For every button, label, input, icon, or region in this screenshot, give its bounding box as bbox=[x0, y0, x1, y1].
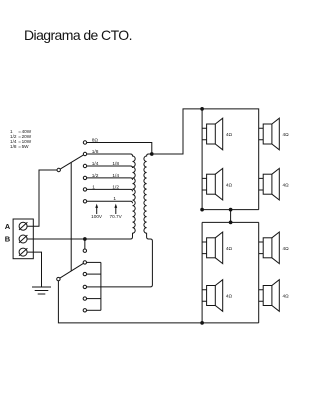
svg-text:4Ω: 4Ω bbox=[283, 294, 290, 299]
svg-text:1: 1 bbox=[92, 184, 95, 190]
wire tap 5 to primary winding bbox=[87, 189, 133, 191]
selector S2 pivot bbox=[57, 277, 60, 280]
svg-text:1/2: 1/2 bbox=[92, 173, 99, 179]
label LS3 4-ohm bbox=[226, 182, 233, 187]
wire terminal B to transformer primary bottom bbox=[27, 238, 130, 240]
node group2 bottom left bbox=[200, 321, 204, 325]
svg-text:8Ω: 8Ω bbox=[92, 137, 99, 143]
label 70.7V bbox=[109, 214, 122, 219]
node B junction bbox=[83, 237, 87, 241]
ground bbox=[32, 287, 51, 294]
node group2 top link bbox=[229, 221, 233, 225]
label terminal A bbox=[5, 222, 11, 231]
wire terminal A to selector S1 pivot bbox=[27, 170, 57, 226]
svg-text:4Ω: 4Ω bbox=[283, 132, 290, 137]
selector S1 contact 5 bbox=[83, 188, 86, 191]
wire bus to secondary bottom bbox=[101, 286, 151, 288]
arrow 100V tap pointer bbox=[95, 204, 98, 214]
label LS1 4-ohm bbox=[226, 132, 233, 137]
svg-text:4Ω: 4Ω bbox=[226, 294, 233, 299]
wire link group1-group2 bbox=[230, 210, 232, 223]
label tap 1 (100V col) bbox=[92, 184, 95, 190]
svg-text:100V: 100V bbox=[91, 214, 103, 219]
svg-text:1/4: 1/4 bbox=[92, 161, 99, 167]
label LS6 4-ohm bbox=[283, 246, 290, 251]
wire 8-ohm tap to secondary top node bbox=[87, 143, 152, 155]
selector S2 contact 1 bbox=[83, 249, 86, 252]
svg-text:4Ω: 4Ω bbox=[283, 182, 290, 187]
speaker LS8 bbox=[259, 280, 280, 312]
svg-text:4Ω: 4Ω bbox=[226, 182, 233, 187]
selector S2 contact 5 bbox=[83, 297, 86, 300]
selector S2 wiper arm bbox=[60, 263, 83, 278]
transformer T1 secondary winding bbox=[144, 154, 152, 287]
speaker LS4 bbox=[259, 168, 280, 200]
wire group1 bottom rail bbox=[202, 209, 259, 211]
selector S2 contact 2 bbox=[83, 261, 86, 264]
wire S2 contact 3 to bus bbox=[87, 273, 101, 275]
label LS8 4-ohm bbox=[283, 294, 290, 299]
wire terminal 3 to ground bbox=[27, 252, 41, 287]
selector S1 wiper arm bbox=[60, 155, 83, 169]
label 100V bbox=[91, 214, 103, 219]
wire S2 contact 6 to bus bbox=[87, 309, 101, 311]
label LS7 4-ohm bbox=[226, 294, 233, 299]
wire secondary top to speaker rail bbox=[154, 109, 259, 210]
wire group2 bottom rail bbox=[202, 322, 259, 324]
svg-text:A: A bbox=[5, 222, 11, 231]
node group1 bottom left bbox=[200, 208, 204, 212]
wire S2 contact 5 to bus bbox=[87, 298, 101, 300]
label tap 1/8 (70.7V col) bbox=[112, 161, 119, 167]
wire S2 common bus bbox=[100, 262, 102, 310]
node group1 bottom link bbox=[229, 208, 233, 212]
speaker LS1 bbox=[202, 118, 223, 150]
label tap 1/4 (70.7V col) bbox=[112, 173, 119, 179]
wire group2 right column bbox=[258, 222, 260, 323]
transformer T1 primary winding bbox=[87, 154, 135, 239]
selector S1 contact 6 bbox=[83, 200, 86, 203]
label tap 1 (70.7V col) bbox=[113, 196, 116, 202]
svg-text:1/2: 1/2 bbox=[112, 184, 119, 190]
wire group2 top rail bbox=[202, 221, 259, 223]
power legend bbox=[10, 129, 32, 149]
speaker LS3 bbox=[202, 168, 223, 200]
label LS4 4-ohm bbox=[283, 182, 290, 187]
wire S2 contact 2 to bus bbox=[87, 261, 101, 263]
label LS5 4-ohm bbox=[226, 246, 233, 251]
selector S1 contact 2 bbox=[83, 152, 86, 155]
wire group1 left column bbox=[201, 109, 203, 210]
wire S2 contact 4 to bus bbox=[87, 286, 101, 288]
wire tap 6 to primary winding bbox=[87, 201, 133, 203]
selector S1 contact 3 bbox=[83, 164, 86, 167]
svg-text:B: B bbox=[5, 235, 11, 244]
terminal block TB1 body bbox=[13, 219, 33, 259]
terminal screw B bbox=[19, 235, 27, 243]
wire return to selector S2 pivot bbox=[58, 281, 202, 323]
svg-text:1/4: 1/4 bbox=[112, 173, 119, 179]
svg-text:4Ω: 4Ω bbox=[283, 246, 290, 251]
terminal screw GND bbox=[19, 248, 27, 256]
selector S2 contact 4 bbox=[83, 285, 86, 288]
selector S1 contact 8-ohm bbox=[83, 141, 86, 144]
label tap 1/2 (100V col) bbox=[92, 173, 99, 179]
wire tap 4 to primary winding bbox=[87, 178, 133, 180]
wire group2 left column bbox=[201, 222, 203, 323]
svg-text:1/8: 1/8 bbox=[92, 149, 99, 155]
selector S1 contact 4 bbox=[83, 176, 86, 179]
selector S2 contact 3 bbox=[83, 272, 86, 275]
wire tap 3 to primary winding bbox=[87, 166, 133, 168]
svg-text:4Ω: 4Ω bbox=[226, 246, 233, 251]
speaker LS6 bbox=[259, 232, 280, 264]
svg-text:70.7V: 70.7V bbox=[109, 214, 122, 219]
label tap 1/2 (70.7V col) bbox=[112, 184, 119, 190]
label LS2 4-ohm bbox=[283, 132, 290, 137]
gang link wire S1-S2 bbox=[70, 162, 72, 271]
speaker LS5 bbox=[202, 232, 223, 264]
svg-text:Diagrama de CTO.: Diagrama de CTO. bbox=[24, 27, 133, 43]
label terminal B bbox=[5, 235, 11, 244]
wire B node to S2 contact 1 bbox=[84, 239, 86, 249]
terminal screw A bbox=[19, 222, 27, 230]
speaker LS2 bbox=[259, 118, 280, 150]
svg-text:4Ω: 4Ω bbox=[226, 132, 233, 137]
speaker LS7 bbox=[202, 280, 223, 312]
label tap 1/8 (100V col) bbox=[92, 149, 99, 155]
selector S1 pivot bbox=[57, 168, 60, 171]
label tap 1/4 (100V col) bbox=[92, 161, 99, 167]
arrow 70.7V tap pointer bbox=[114, 204, 117, 214]
node secondary top bbox=[150, 152, 154, 156]
svg-text:1/8: 1/8 bbox=[112, 161, 119, 167]
node top rail junction bbox=[200, 107, 204, 111]
svg-text:1: 1 bbox=[113, 196, 116, 202]
label tap 8Ω (100V col) bbox=[92, 137, 99, 143]
svg-text:1/8=5W: 1/8=5W bbox=[10, 144, 29, 149]
selector S2 contact 6 bbox=[83, 309, 86, 312]
title bbox=[24, 27, 133, 43]
